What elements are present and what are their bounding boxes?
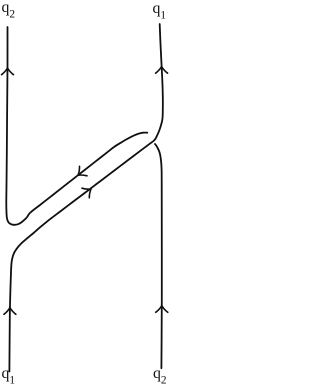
wire: q2 strand lower part (under-crossing resume, bottom-right vertical) (155, 144, 162, 368)
arrowhead up (top-left vertical) (2, 68, 14, 75)
arrowhead up (top-right vertical) (156, 67, 168, 74)
node label q1 (bottom left) (2, 366, 16, 382)
node label q2 (top left) (2, 0, 16, 15)
wire: q2 strand upper part (top-left vertical, U-turn, up-right diagonal, hook end at crossing) (6, 27, 147, 225)
arrowhead down-left (upper diagonal of q2 strand) (78, 166, 87, 176)
arrowhead up (bottom-left vertical) (4, 308, 16, 315)
arrowhead up (bottom-right vertical) (156, 306, 168, 313)
node label q2 (bottom right) (153, 366, 167, 382)
arrowhead up-right (lower diagonal of q1 strand) (82, 188, 91, 198)
wire: q1 strand (bottom-left vertical, up-right diagonal, over-crossing, top-right vertical) (9, 24, 162, 372)
node label q1 (top right) (153, 1, 167, 17)
